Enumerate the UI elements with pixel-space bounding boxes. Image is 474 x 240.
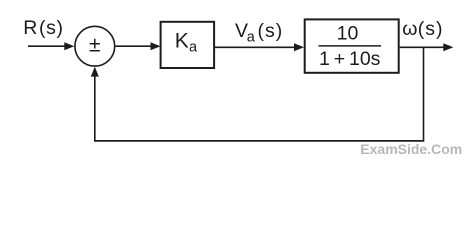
svg-text:ω: ω (402, 18, 417, 40)
wire feedback rise into summing junction (94, 74, 96, 141)
svg-text:a: a (247, 30, 256, 46)
svg-text:(s): (s) (418, 18, 444, 40)
svg-text:(s): (s) (258, 20, 284, 42)
wire feedback vertical drop from output (423, 47, 425, 141)
wire input arrow into summing junction (28, 45, 66, 47)
block Ka (amplifier gain) (161, 22, 215, 68)
svg-text:10: 10 (337, 22, 359, 44)
svg-text:K: K (175, 29, 189, 52)
wire output arrow (400, 46, 445, 48)
svg-text:1 + 10s: 1 + 10s (319, 48, 381, 70)
block G(s) = 10/(1+10s) (305, 19, 399, 72)
svg-text:ExamSide.Com: ExamSide.Com (360, 141, 462, 157)
wire Ka block to transfer-function block (215, 46, 296, 48)
svg-text:±: ± (89, 33, 101, 56)
summing junction S1 (75, 26, 115, 66)
wire feedback bottom horizontal (94, 140, 424, 142)
wire summing junction to Ka block (116, 45, 153, 47)
svg-text:a: a (189, 40, 198, 56)
svg-text:(s): (s) (39, 17, 64, 39)
svg-text:R: R (23, 17, 37, 39)
